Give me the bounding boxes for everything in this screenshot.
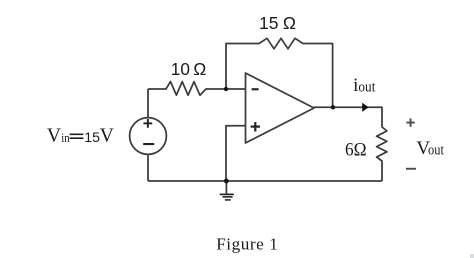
svg-text:out: out [358,80,376,96]
svg-text:Ω: Ω [193,59,206,79]
svg-text:6Ω: 6Ω [345,140,367,161]
svg-text:15: 15 [259,13,278,33]
svg-text:V: V [47,125,61,146]
svg-text:Ω: Ω [283,13,296,33]
svg-text:out: out [428,143,444,159]
svg-text:10: 10 [171,59,190,79]
svg-text:V: V [100,125,114,146]
svg-text:Figure 1: Figure 1 [216,235,278,254]
svg-text:15: 15 [84,130,100,146]
svg-text:in: in [61,131,70,145]
